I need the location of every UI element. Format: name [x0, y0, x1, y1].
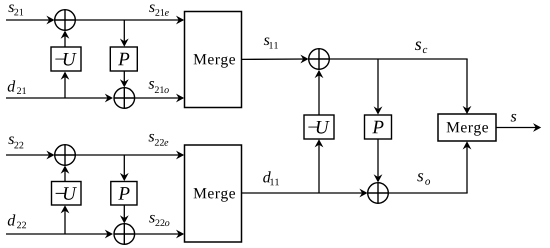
- node sc label: [415, 42, 427, 54]
- wire branch d21 to U1: [61, 72, 70, 99]
- node s21e label: [149, 4, 169, 15]
- wire branch s21e to P1: [120, 20, 129, 47]
- wire branch s22e to P2: [120, 155, 129, 181]
- adder X5: [114, 224, 135, 245]
- updater U1 box (-U): [51, 47, 81, 71]
- adder X4: [55, 145, 76, 166]
- wire adder X1 to Merge M1: [75, 16, 184, 25]
- node s21 label: [8, 4, 23, 15]
- node s22o label: [149, 215, 169, 226]
- wire sc corner down to Merge M3: [463, 59, 472, 114]
- wire adder X6 to corner so: [388, 192, 467, 194]
- wire P1 to adder X2: [120, 71, 129, 87]
- wire U2 to adder X4: [61, 166, 70, 182]
- predictor P2 box: [111, 182, 137, 206]
- updater U3 box (-U): [304, 115, 334, 139]
- wire s21 input: [6, 16, 55, 25]
- wire branch d11 to U3: [315, 139, 324, 193]
- merge M1 box: [185, 12, 242, 108]
- node s11 label: [264, 37, 278, 48]
- adder X2: [114, 88, 135, 109]
- predictor P3 box: [365, 115, 392, 139]
- node d11 label: [263, 171, 279, 185]
- wire U3 to adder X3: [315, 70, 324, 115]
- wire so corner up to Merge M3: [463, 141, 472, 193]
- wire branch sc to P3: [374, 59, 383, 115]
- node d21 label: [8, 80, 26, 94]
- wire s22 input: [6, 151, 55, 160]
- wire adder X2 to Merge M1: [135, 94, 185, 103]
- wire s output: [496, 123, 541, 132]
- wire adder X3 to corner sc: [329, 58, 467, 60]
- merge M3 box: [438, 114, 496, 141]
- updater U2 box (-U): [52, 182, 82, 206]
- wire s11 M1 to adder X3: [242, 55, 309, 64]
- adder X6: [368, 183, 389, 204]
- wire U1 to adder X1: [61, 31, 70, 48]
- node s22 label: [8, 136, 23, 148]
- wire branch d22 to U2: [61, 205, 70, 234]
- wire P3 to adder X6: [374, 139, 383, 183]
- wire d21 input: [6, 94, 113, 103]
- node so label: [417, 173, 430, 185]
- node d22 label: [8, 214, 26, 228]
- wire d11 M2 to adder X6: [242, 189, 368, 198]
- node s21o label: [149, 81, 169, 93]
- adder X3: [309, 49, 330, 70]
- node s22e label: [149, 134, 169, 146]
- wire adder X4 to Merge M2: [75, 151, 184, 160]
- wire d22 input: [6, 230, 113, 239]
- predictor P1 box: [110, 47, 137, 71]
- wire adder X5 to Merge M2: [135, 230, 185, 239]
- node s output label: [511, 114, 517, 122]
- wire P2 to adder X5: [120, 205, 129, 224]
- merge M2 box: [185, 145, 242, 242]
- adder X1: [55, 10, 76, 31]
